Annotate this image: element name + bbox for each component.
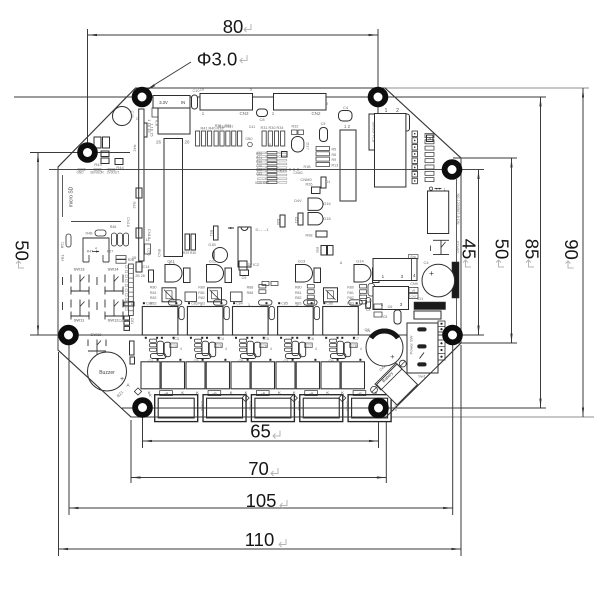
svg-text:C9: C9 <box>242 276 247 280</box>
svg-text:R35: R35 <box>215 124 222 128</box>
svg-text:14: 14 <box>146 238 150 242</box>
svg-text:K: K <box>149 393 152 398</box>
svg-text:65: 65 <box>250 421 271 442</box>
svg-text:C14: C14 <box>143 265 150 269</box>
svg-text:45: 45 <box>459 239 480 260</box>
svg-text:~B: ~B <box>357 392 362 396</box>
svg-text:R83: R83 <box>347 301 354 305</box>
svg-text:R51: R51 <box>61 242 65 248</box>
svg-text:+: + <box>429 269 434 278</box>
svg-text:R1B: R1B <box>304 165 312 169</box>
svg-text:0: 0 <box>269 143 271 147</box>
svg-text:R9: R9 <box>332 158 337 162</box>
svg-text:R81: R81 <box>198 291 205 295</box>
svg-text:R81: R81 <box>150 291 157 295</box>
svg-text:A: A <box>428 136 431 141</box>
svg-text:R80: R80 <box>198 286 205 290</box>
svg-text:YR1: YR1 <box>61 255 65 262</box>
svg-text:C19: C19 <box>130 111 134 118</box>
svg-text:R82: R82 <box>150 296 157 300</box>
svg-text:K: K <box>326 390 329 395</box>
svg-text:1: 1 <box>444 188 446 192</box>
svg-text:R43: R43 <box>94 162 102 167</box>
svg-text:CN9: CN9 <box>410 282 418 286</box>
svg-text:R32: R32 <box>292 125 299 129</box>
svg-text:10: 10 <box>200 87 205 92</box>
svg-text:R82: R82 <box>198 296 205 300</box>
svg-text:26: 26 <box>184 140 190 145</box>
svg-text:C85: C85 <box>281 302 288 306</box>
svg-text:SENSOR: SENSOR <box>90 171 104 175</box>
svg-text:90: 90 <box>561 239 582 260</box>
svg-text:D4V: D4V <box>294 199 302 203</box>
svg-text:D20: D20 <box>276 219 280 226</box>
svg-text:K: K <box>196 390 199 395</box>
svg-text:C61: C61 <box>119 319 126 323</box>
svg-text:R26: R26 <box>306 183 313 187</box>
svg-text:GND: GND <box>76 171 84 175</box>
svg-text:LCD: LCD <box>147 248 151 256</box>
svg-text:Power SW: Power SW <box>409 335 414 354</box>
svg-text:A: A <box>126 383 129 388</box>
svg-text:C4: C4 <box>423 260 429 265</box>
svg-text:4: 4 <box>360 347 362 351</box>
svg-text:CN2: CN2 <box>311 111 320 116</box>
svg-text:D↔→1: D↔→1 <box>255 227 269 232</box>
svg-text:C9: C9 <box>321 122 326 126</box>
svg-text:R88: R88 <box>247 291 254 295</box>
svg-text:G18: G18 <box>323 217 330 221</box>
svg-text:1: 1 <box>296 303 298 307</box>
svg-text:R27: R27 <box>107 250 114 254</box>
svg-text:R5: R5 <box>332 148 337 152</box>
svg-text:R30: R30 <box>190 251 196 255</box>
svg-text:G1B: G1B <box>208 243 216 247</box>
svg-text:C75: C75 <box>215 344 221 348</box>
svg-text:G12: G12 <box>209 259 217 264</box>
svg-text:4: 4 <box>270 347 272 351</box>
svg-text:K: K <box>293 390 296 395</box>
svg-text:V6: V6 <box>412 289 416 293</box>
svg-text:+: + <box>120 376 124 383</box>
svg-text:C4: C4 <box>343 105 349 110</box>
svg-text:R13: R13 <box>332 163 339 167</box>
svg-text:R80: R80 <box>295 286 302 290</box>
svg-text:R47: R47 <box>87 250 94 254</box>
svg-text:C41: C41 <box>249 125 256 129</box>
svg-text:R8: R8 <box>332 153 337 157</box>
svg-text:SW12: SW12 <box>108 318 120 323</box>
svg-text:C52: C52 <box>256 172 262 176</box>
svg-text:K: K <box>341 390 344 395</box>
svg-text:28: 28 <box>132 256 136 260</box>
svg-text:GND: GND <box>245 137 253 141</box>
svg-text:SW14: SW14 <box>108 267 120 272</box>
svg-text:G14: G14 <box>356 259 364 264</box>
svg-text:R31 R30 R34: R31 R30 R34 <box>260 126 283 130</box>
svg-text:R98: R98 <box>306 234 313 238</box>
svg-text:C81: C81 <box>130 318 134 324</box>
svg-text:IO1: IO1 <box>417 296 424 301</box>
svg-text:C76: C76 <box>260 344 266 348</box>
svg-text:R42: R42 <box>133 145 137 152</box>
svg-text:R48: R48 <box>110 225 117 229</box>
svg-text:~B: ~B <box>309 392 314 396</box>
svg-text:CN40: CN40 <box>293 171 302 175</box>
svg-text:85: 85 <box>522 239 543 260</box>
svg-text:IC2: IC2 <box>253 262 260 267</box>
svg-text:C74: C74 <box>170 344 176 348</box>
svg-text:4: 4 <box>225 347 227 351</box>
svg-text:R82: R82 <box>295 296 302 300</box>
svg-text:D17: D17 <box>306 142 311 150</box>
svg-text:3V3OUT: 3V3OUT <box>107 171 119 175</box>
svg-text:C10: C10 <box>193 89 200 93</box>
svg-text:CN16: CN16 <box>126 217 130 227</box>
svg-text:CN3: CN3 <box>239 111 248 116</box>
svg-text:IN: IN <box>181 100 185 105</box>
svg-text:105: 105 <box>246 490 277 511</box>
svg-text:4: 4 <box>315 347 317 351</box>
svg-text:R88: R88 <box>247 286 254 290</box>
svg-text:SW13: SW13 <box>74 267 86 272</box>
svg-text:K: K <box>230 390 233 395</box>
svg-text:R29: R29 <box>183 251 189 255</box>
svg-text:4: 4 <box>95 247 97 251</box>
svg-text:SW10: SW10 <box>91 332 103 337</box>
svg-text:~B: ~B <box>261 392 266 396</box>
svg-text:80: 80 <box>223 16 244 37</box>
svg-text:+: + <box>390 352 395 361</box>
svg-text:R51: R51 <box>209 230 213 237</box>
svg-text:C83: C83 <box>191 302 198 306</box>
svg-text:G16: G16 <box>323 202 330 206</box>
svg-text:~B: ~B <box>212 392 217 396</box>
svg-text:IC20 K17: IC20 K17 <box>255 181 269 185</box>
svg-text:C8: C8 <box>259 117 265 122</box>
svg-text:50: 50 <box>12 240 33 261</box>
svg-text:4: 4 <box>180 347 182 351</box>
svg-text:R55: R55 <box>315 247 319 253</box>
svg-text:A: A <box>340 261 343 265</box>
svg-text:D5: D5 <box>369 299 374 303</box>
svg-text:R36: R36 <box>225 124 232 128</box>
svg-text:50: 50 <box>492 239 513 260</box>
svg-text:D1: D1 <box>326 180 331 184</box>
svg-text:C78: C78 <box>350 344 356 348</box>
svg-text:R42: R42 <box>132 202 136 209</box>
svg-text:G1: G1 <box>365 329 370 333</box>
svg-text:70: 70 <box>248 458 269 479</box>
svg-text:1 2: 1 2 <box>344 124 351 129</box>
svg-text:C6: C6 <box>388 305 393 309</box>
svg-text:K: K <box>245 390 248 395</box>
svg-text:R81: R81 <box>347 291 354 295</box>
svg-text:CN8: CN8 <box>157 248 162 257</box>
svg-text:B1: B1 <box>131 303 136 307</box>
svg-text:C84: C84 <box>236 302 243 306</box>
svg-text:CNM0: CNM0 <box>300 177 312 182</box>
svg-text:K: K <box>278 390 281 395</box>
svg-text:R82: R82 <box>347 296 354 300</box>
svg-text:C21: C21 <box>294 217 298 224</box>
svg-text:R80: R80 <box>347 286 354 290</box>
svg-text:micro SD: micro SD <box>69 186 75 207</box>
svg-text:C77: C77 <box>305 344 311 348</box>
svg-text:R4B: R4B <box>86 232 94 236</box>
svg-text:R83: R83 <box>150 301 157 305</box>
svg-text:Buzzer: Buzzer <box>99 370 115 376</box>
svg-text:C5: C5 <box>383 315 388 319</box>
svg-text:2B 28: 2B 28 <box>135 274 144 278</box>
svg-text:R80: R80 <box>150 286 157 290</box>
svg-text:Φ3.0: Φ3.0 <box>197 49 237 70</box>
svg-text:26: 26 <box>156 140 162 145</box>
svg-text:D7: D7 <box>248 263 253 267</box>
svg-text:G13: G13 <box>298 259 306 264</box>
svg-text:Q11: Q11 <box>167 259 175 264</box>
svg-text:3.3V: 3.3V <box>159 100 168 105</box>
svg-text:R81: R81 <box>295 291 302 295</box>
svg-text:1: 1 <box>248 303 250 307</box>
svg-text:110: 110 <box>245 529 275 550</box>
svg-text:1 16 15: 1 16 15 <box>147 119 152 133</box>
svg-text:SW11: SW11 <box>74 318 85 323</box>
svg-text:K: K <box>181 390 184 395</box>
svg-text:1: 1 <box>200 303 202 307</box>
svg-text:~B: ~B <box>164 392 169 396</box>
